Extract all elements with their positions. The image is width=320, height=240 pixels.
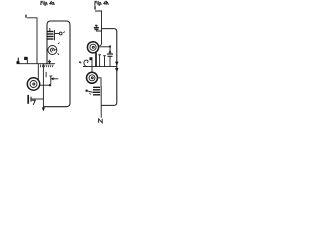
junction dot D [49,84,51,86]
capacitor C1 [28,95,43,104]
T element 1 [98,54,101,56]
lead from S2b [98,78,102,86]
node dot right of loop [79,61,81,63]
antenna lead wire left figure [27,18,37,64]
ground hatching [40,65,53,68]
svg-text:Fig. 4a.: Fig. 4a. [40,1,55,6]
spiral inductor S1 [27,78,39,90]
bottom bus wire right figure [83,66,117,68]
variable capacitor VC [107,47,113,67]
switch flag F1 [26,57,28,64]
stray dot [80,62,81,63]
junction arrows on right edge [115,62,118,65]
wire from S2 bottom [95,53,97,67]
spiral inductor S2 [87,42,98,53]
loop outline left figure [43,21,70,107]
stub wire to S2b [91,67,93,72]
filament coil K2 [85,86,101,105]
terminal tick right figure [94,6,96,10]
curl terminal left end [84,60,88,67]
junction dot [109,45,111,47]
stub wire B [50,76,52,84]
loop outline right figure [101,29,117,106]
terminal post left end [17,58,19,61]
label N [99,119,103,123]
svg-text:Fig. 4b.: Fig. 4b. [94,1,109,6]
terminal tick left figure [25,15,27,18]
spiral right lead [40,84,51,86]
series capacitor C2 [94,25,102,31]
spiral inductor S2b [87,72,98,83]
arrow from M1 to bus wire [49,60,51,63]
relay coil K1 [48,28,65,40]
brush arrow [53,78,59,80]
stub wire A [45,72,47,77]
ground lead down [100,105,102,117]
ground bus wire [17,63,56,65]
galvanometer M1 [48,43,60,55]
label 7 [32,100,36,105]
switch flag F2 [91,57,93,66]
antenna lead right figure [95,11,102,46]
lead from S2 to junction [99,46,110,48]
wire to spiral top [37,64,39,80]
T element 2 [103,55,106,57]
vertical bus to bottom with arrow [42,64,44,110]
